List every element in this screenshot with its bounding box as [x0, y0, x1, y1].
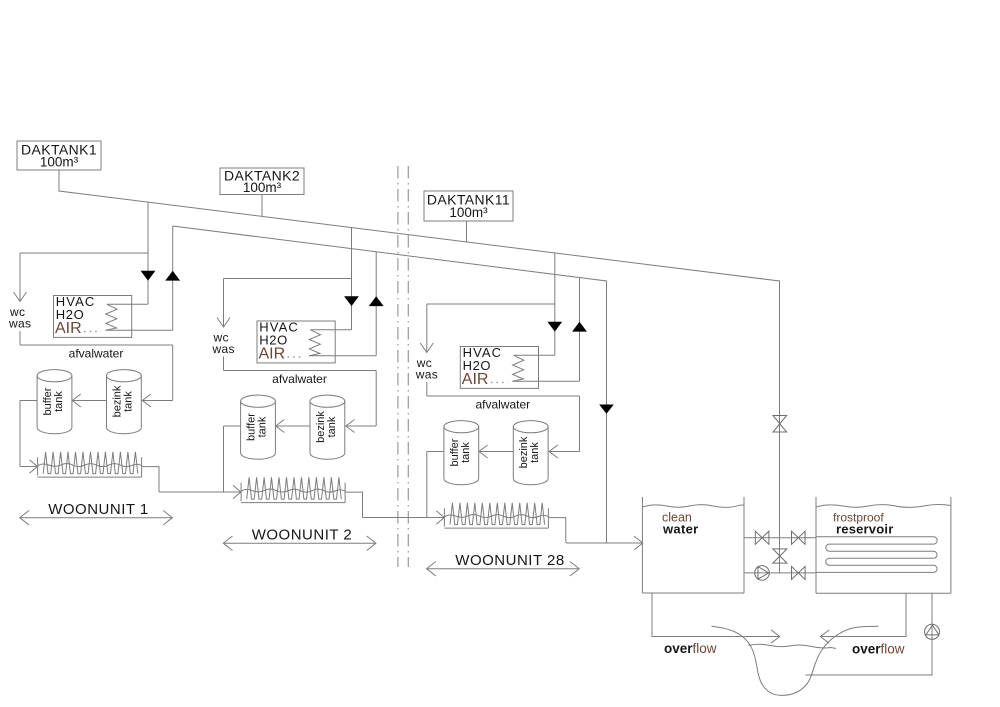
daktank D11 box — [424, 191, 513, 221]
coil frostproof serpentine — [816, 537, 937, 573]
valve bowtie lower-right — [792, 566, 806, 579]
svg-text:overflow: overflow — [852, 642, 905, 657]
daktank D2 box — [220, 168, 304, 195]
water level wavy line pond — [749, 644, 837, 648]
pond right bank — [782, 626, 879, 695]
unit WOONUNIT 2 — [212, 228, 384, 551]
pump between tanks — [755, 566, 770, 581]
valve hourglass on bypass — [773, 549, 787, 563]
separation dashed line left — [397, 166, 399, 567]
svg-text:overflow: overflow — [664, 641, 717, 656]
wire clean tank overflow — [652, 593, 780, 637]
svg-text:WOONUNIT 1: WOONUNIT 1 — [48, 501, 149, 518]
wire unit2 to unit28 — [363, 517, 444, 519]
wire return roof line to clean water tank — [173, 226, 607, 543]
svg-text:water: water — [662, 522, 698, 537]
valve bowtie upper-left — [755, 531, 769, 544]
pipe upper between tanks — [744, 537, 816, 539]
svg-text:100m³: 100m³ — [40, 155, 79, 170]
arrow overflow into pond left — [771, 630, 780, 643]
pipe lower between tanks — [744, 572, 816, 574]
tank frostproof reservoir walls — [816, 497, 951, 593]
svg-text:WOONUNIT 2: WOONUNIT 2 — [252, 527, 353, 544]
wire daktank D11 drop — [466, 221, 468, 242]
wire unit1 to unit2 — [159, 491, 241, 493]
valve bowtie upper-right — [792, 531, 806, 544]
pond left bank — [712, 626, 782, 695]
water level wavy line reservoir — [816, 504, 951, 507]
daktank D1 box — [17, 141, 101, 170]
pump pond suction — [925, 624, 940, 639]
unit WOONUNIT 28 — [415, 253, 587, 576]
wire unit28 to clean water tank — [566, 542, 643, 544]
arrow overflow into pond right — [820, 630, 829, 643]
tank clean water walls — [642, 497, 744, 593]
unit WOONUNIT 1 — [8, 202, 180, 525]
svg-text:100m³: 100m³ — [243, 180, 282, 195]
wire main supply roof line from D1 — [59, 170, 780, 573]
svg-text:reservoir: reservoir — [836, 522, 893, 537]
valve hourglass on main supply drop — [773, 416, 787, 433]
wire reservoir overflow — [821, 593, 907, 636]
separation dashed line right — [407, 166, 409, 567]
arrow into clean water tank — [634, 536, 643, 550]
wire daktank D2 drop — [261, 195, 263, 217]
valve flow-down triangle on clean water feed — [599, 405, 614, 414]
svg-text:WOONUNIT 28: WOONUNIT 28 — [455, 552, 564, 569]
water level wavy line clean tank — [642, 505, 744, 508]
svg-text:100m³: 100m³ — [449, 205, 488, 220]
wire pond suction to reservoir — [806, 593, 933, 675]
